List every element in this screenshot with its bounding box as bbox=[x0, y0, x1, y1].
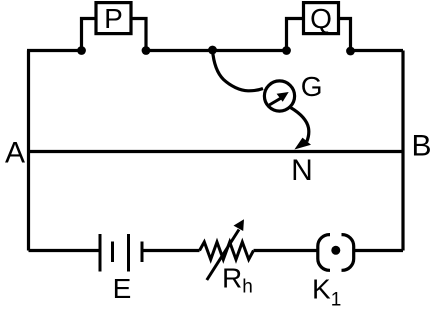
rheostat Rh zigzag bbox=[200, 242, 254, 260]
svg-text:N: N bbox=[291, 154, 313, 187]
wire rheostat to key bbox=[254, 249, 317, 252]
wire right vertical bbox=[401, 51, 404, 251]
galvanometer G bbox=[264, 81, 294, 111]
wire top segment right bbox=[351, 49, 404, 52]
wire Q right lead bbox=[340, 19, 351, 51]
wire AB bridge bbox=[29, 150, 404, 153]
wire Q left lead bbox=[287, 19, 303, 51]
rheostat arrow shaft bbox=[207, 230, 239, 281]
wire battery to rheostat bbox=[142, 249, 200, 252]
wire galvanometer input curve bbox=[213, 50, 264, 91]
wire bottom left to battery bbox=[29, 249, 101, 252]
wire galvanometer output curve to jockey N bbox=[291, 108, 309, 142]
jockey arrowhead at N bbox=[294, 138, 311, 150]
rheostat arrowhead bbox=[234, 219, 245, 231]
svg-text:G: G bbox=[301, 71, 323, 102]
battery E bbox=[100, 234, 142, 272]
svg-text:A: A bbox=[5, 137, 25, 170]
resistor P bbox=[96, 3, 131, 34]
node junction dot 1 bbox=[77, 46, 86, 55]
wire key to right corner bbox=[355, 249, 403, 252]
wire top segment middle bbox=[146, 49, 287, 52]
node junction dot 4 bbox=[282, 46, 291, 55]
svg-text:B: B bbox=[411, 130, 431, 163]
node junction dot 2 bbox=[142, 46, 151, 55]
node junction dot 3 (galvanometer tap) bbox=[208, 46, 217, 55]
node junction dot 5 bbox=[346, 47, 355, 56]
key K1 contact dot bbox=[331, 246, 340, 255]
svg-text:P: P bbox=[104, 3, 123, 34]
wire left vertical bbox=[27, 51, 30, 251]
wire P left lead bbox=[82, 19, 96, 51]
svg-text:Q: Q bbox=[310, 3, 332, 34]
resistor Q bbox=[304, 3, 339, 34]
svg-text:E: E bbox=[113, 273, 132, 304]
wire P right lead bbox=[132, 19, 146, 51]
key K1 bbox=[318, 235, 354, 271]
wire top segment left bbox=[27, 49, 82, 52]
